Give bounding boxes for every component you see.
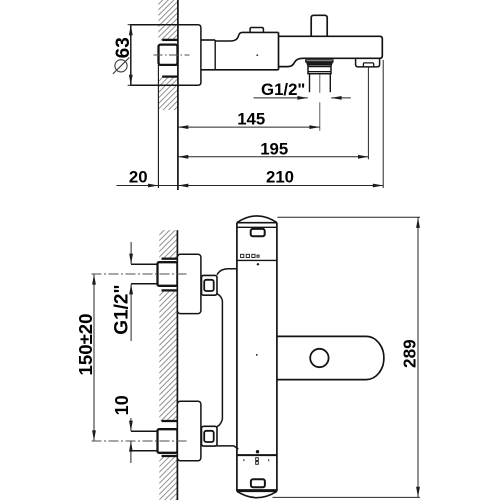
svg-text:145: 145 <box>237 110 265 129</box>
svg-text:210: 210 <box>266 168 294 187</box>
svg-text:195: 195 <box>260 140 288 159</box>
svg-text:150±20: 150±20 <box>75 314 96 376</box>
svg-text:G1/2": G1/2" <box>112 284 133 334</box>
svg-text:10: 10 <box>112 395 132 415</box>
svg-text:289: 289 <box>400 339 420 368</box>
svg-text:63: 63 <box>113 37 134 58</box>
svg-text:20: 20 <box>129 168 148 187</box>
svg-text:G1/2": G1/2" <box>261 80 305 99</box>
